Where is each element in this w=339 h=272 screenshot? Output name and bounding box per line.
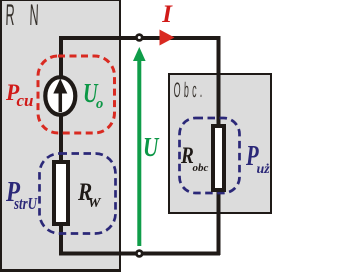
label U (green) <box>143 134 158 161</box>
wire top <box>59 36 220 40</box>
label I (red) <box>162 2 172 27</box>
source arrow <box>59 92 63 112</box>
current I arrow (red) <box>160 30 175 46</box>
label P_strU (navy) <box>6 179 20 207</box>
resistor Rw <box>54 162 68 224</box>
label R_w (black) <box>78 180 92 205</box>
label R N <box>5 1 15 31</box>
wire left <box>59 36 63 255</box>
resistor Robc <box>213 126 224 190</box>
label U0 (green) <box>83 80 98 107</box>
voltage U arrow (green) <box>137 59 141 246</box>
wire right <box>217 36 221 255</box>
P_cu boundary (red dashed) <box>38 56 115 133</box>
P_strU boundary (navy dashed) <box>40 154 116 234</box>
label P_uz (navy) <box>246 143 259 171</box>
label P_cu (red) <box>6 82 19 106</box>
node top <box>136 35 142 41</box>
current source U0 <box>45 77 75 115</box>
source network gray box (R N) <box>0 0 121 272</box>
wire bottom <box>59 252 220 256</box>
label Obc. <box>173 80 206 101</box>
node bottom <box>136 251 142 257</box>
P_uz boundary (navy dashed) <box>180 118 240 193</box>
load gray box (Obc.) <box>168 73 272 214</box>
label R_obc (black) <box>181 145 194 169</box>
